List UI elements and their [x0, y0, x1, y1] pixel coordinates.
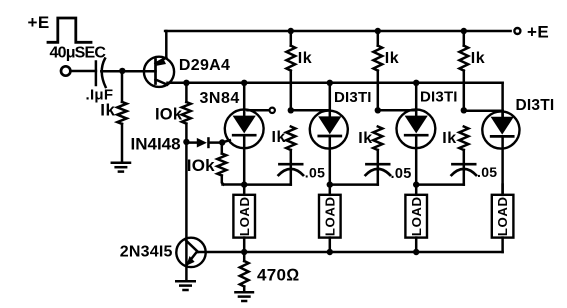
svg-text:DI3TI: DI3TI: [334, 89, 372, 106]
svg-text:470Ω: 470Ω: [257, 266, 300, 285]
svg-text:DI3TI: DI3TI: [420, 88, 458, 105]
svg-text:3N84: 3N84: [200, 90, 240, 107]
svg-text:IOk: IOk: [187, 156, 215, 175]
svg-text:.05: .05: [305, 164, 325, 180]
svg-text:IN4I48: IN4I48: [131, 134, 181, 153]
svg-text:Ik: Ik: [385, 50, 399, 67]
svg-text:LOAD: LOAD: [237, 196, 252, 236]
svg-text:+E: +E: [28, 13, 50, 32]
svg-text:2N34I5: 2N34I5: [120, 244, 173, 261]
svg-text:.05: .05: [477, 164, 497, 180]
svg-text:IOk: IOk: [155, 106, 183, 124]
svg-text:Ik: Ik: [358, 130, 372, 147]
svg-text:Ik: Ik: [272, 129, 286, 146]
svg-text:LOAD: LOAD: [322, 196, 337, 236]
svg-text:DI3TI: DI3TI: [516, 97, 555, 114]
svg-text:LOAD: LOAD: [495, 196, 510, 236]
svg-text:Ik: Ik: [442, 130, 456, 147]
svg-text:Ik: Ik: [298, 50, 312, 67]
svg-text:+E: +E: [527, 23, 549, 42]
svg-text:LOAD: LOAD: [409, 196, 424, 236]
svg-text:D29A4: D29A4: [179, 57, 230, 74]
svg-text:Ik: Ik: [471, 50, 485, 67]
svg-text:Ik: Ik: [100, 101, 115, 120]
svg-text:.05: .05: [391, 166, 412, 182]
svg-text:40μSEC: 40μSEC: [50, 44, 107, 61]
